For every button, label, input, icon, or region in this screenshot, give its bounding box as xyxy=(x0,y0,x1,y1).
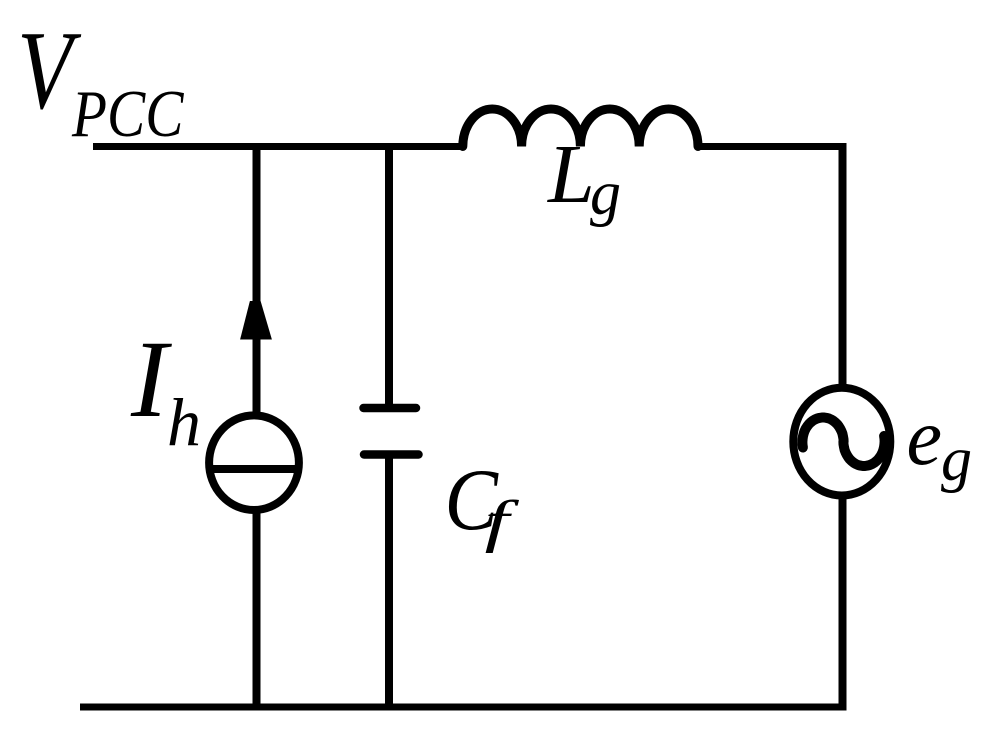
wire left branch lower (current source to ground rail) xyxy=(253,508,261,711)
svg-text:h: h xyxy=(167,384,201,460)
AC source sine wave xyxy=(802,418,884,467)
AC voltage source eg circle xyxy=(793,388,890,496)
svg-text:f: f xyxy=(485,490,520,554)
svg-text:PCC: PCC xyxy=(71,77,185,151)
wire capacitor branch lower (capacitor to ground rail) xyxy=(385,456,393,711)
svg-text:g: g xyxy=(590,160,621,228)
current source Ih circle xyxy=(209,415,299,510)
wire capacitor branch upper (top rail to capacitor) xyxy=(385,143,393,406)
svg-text:L: L xyxy=(547,128,595,221)
capacitor Cf bottom plate xyxy=(364,450,419,459)
wire bottom rail xyxy=(80,704,847,711)
wire right vertical lower (AC source to ground rail) xyxy=(839,494,847,711)
current source Ih label xyxy=(130,318,201,460)
AC source eg label xyxy=(907,394,973,494)
capacitor Cf top plate xyxy=(364,404,417,413)
current direction arrowhead xyxy=(240,301,272,340)
inductor Lg xyxy=(463,109,698,147)
current source bar xyxy=(207,465,301,473)
svg-text:I: I xyxy=(130,318,172,440)
svg-text:g: g xyxy=(941,426,972,494)
svg-text:e: e xyxy=(907,394,943,482)
node V_PCC label xyxy=(17,9,185,151)
wire top-left segment (V_PCC node to inductor) xyxy=(93,143,463,150)
wire right vertical upper (corner down to AC source) xyxy=(839,143,847,390)
inductor Lg value label xyxy=(547,128,621,228)
capacitor Cf value label xyxy=(445,452,521,554)
wire left branch upper (top rail down to current source) xyxy=(253,143,261,418)
wire top-right segment (inductor to grid corner) xyxy=(698,143,847,150)
